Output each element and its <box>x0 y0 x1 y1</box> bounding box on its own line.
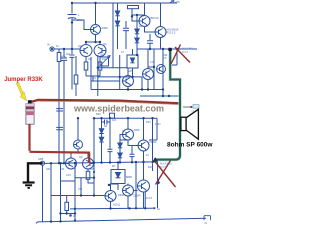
wire node line y49 <box>137 48 197 50</box>
wire black ground <box>28 163 42 181</box>
wire red lower <box>30 124 91 163</box>
wire col x154 <box>148 49 154 90</box>
svg-text:+: + <box>78 14 80 18</box>
wire col x145 <box>144 192 146 208</box>
transistor Q4 driver <box>139 16 150 27</box>
resistor R under Q10 <box>87 169 89 172</box>
svg-text:ZD: ZD <box>112 165 116 168</box>
diode D6 <box>101 134 103 138</box>
wire mirror join <box>86 76 100 81</box>
node teal top <box>168 48 171 51</box>
wire left col x51 <box>50 163 52 221</box>
diode D3 <box>136 15 138 29</box>
svg-text:R 0.5: R 0.5 <box>160 166 167 169</box>
svg-text:BD139: BD139 <box>151 16 159 20</box>
svg-text:R15: R15 <box>146 121 151 124</box>
svg-text:www.spiderbeat.com: www.spiderbeat.com <box>73 103 164 113</box>
speaker SP1 <box>181 109 199 139</box>
svg-text:R 0.5: R 0.5 <box>146 197 153 200</box>
wire Q1 emitter to tail <box>86 35 100 46</box>
wire col x136 <box>135 162 137 208</box>
wire Q1 base <box>72 20 89 30</box>
svg-text:R 0.5: R 0.5 <box>182 51 189 54</box>
wire bottom rail2 y117 <box>94 117 157 119</box>
wire vas vertical <box>90 57 92 90</box>
svg-text:o1: o1 <box>157 208 160 211</box>
svg-text:A968: A968 <box>134 129 140 132</box>
svg-text:8ohm SP 600w: 8ohm SP 600w <box>167 142 213 149</box>
svg-text:D668: D668 <box>118 194 125 197</box>
wire Q10 base <box>92 163 95 165</box>
resistor R small x66 <box>66 196 68 203</box>
wire left col x60 <box>60 163 62 221</box>
bias spreader VR1 <box>127 55 138 68</box>
wire arrow down x2 <box>157 180 160 184</box>
wire col x152.5 low <box>152 163 154 171</box>
teal arrowhead <box>151 157 158 163</box>
wire col x94 <box>93 118 95 163</box>
svg-text:Q9: Q9 <box>79 156 83 159</box>
svg-text:104: 104 <box>112 119 117 122</box>
resistor R5 <box>112 3 114 68</box>
diode D2 <box>115 21 119 26</box>
transistor Q16 <box>105 191 116 202</box>
terminal dot 0v <box>69 214 72 217</box>
component box y113 <box>110 113 115 118</box>
X mark 1 <box>171 45 190 65</box>
diode D8 <box>119 148 121 153</box>
resistor R4 <box>98 62 102 70</box>
svg-text:+65: +65 <box>175 0 180 4</box>
diode D4 <box>136 34 138 38</box>
svg-text:VAS: VAS <box>128 70 133 73</box>
svg-text:C7: C7 <box>121 51 125 54</box>
transistor Q9 diff2 <box>66 158 77 169</box>
wire row y181 <box>61 180 76 182</box>
wire mesh bottom left <box>51 163 105 196</box>
capacitor C8 left col <box>56 109 63 111</box>
wire col x119.7 <box>119 55 121 90</box>
capacitor C4 <box>149 34 151 40</box>
transistor Q13 <box>138 140 149 151</box>
svg-text:100n: 100n <box>155 123 161 126</box>
capacitor C10 <box>125 21 127 28</box>
wire speaker lower stub <box>157 162 159 208</box>
transistor Q1 <box>91 25 101 35</box>
wire col x152.5 <box>152 118 154 162</box>
transistor Q11 tail <box>74 140 83 149</box>
wire red jumper top <box>32 100 182 104</box>
diode D1 <box>117 3 119 11</box>
svg-text:C10: C10 <box>66 174 71 177</box>
wire row y76.9 <box>98 77 142 90</box>
wire Q9 base <box>59 163 66 165</box>
wire Q12 base <box>120 134 123 137</box>
wire col x97.8 <box>97 55 99 96</box>
node resistor top cap <box>28 100 32 104</box>
wire Q4 emitter <box>145 27 156 33</box>
wire row y67.8 <box>98 67 127 69</box>
svg-text:0v: 0v <box>205 222 208 225</box>
ground symbol <box>23 183 35 188</box>
capacitor C6 <box>109 118 111 149</box>
wire row y213.5 <box>61 213 76 215</box>
input terminal 2 <box>40 161 44 165</box>
wire col x163 <box>162 49 164 96</box>
X mark 2 <box>155 161 176 188</box>
transistor Q3 diff <box>94 45 106 57</box>
resistor R3 <box>84 62 88 70</box>
power terminal +V <box>170 1 175 4</box>
wire Q15 base <box>134 190 138 192</box>
diode D7 <box>119 135 121 143</box>
yellow callout arrow <box>16 82 26 101</box>
diode D5 <box>101 118 103 129</box>
svg-text:IN: IN <box>47 43 50 47</box>
svg-text:C2344: C2344 <box>133 195 141 198</box>
capacitor C9 left col <box>56 127 63 129</box>
svg-text:B688: B688 <box>126 176 132 179</box>
svg-text:0.5: 0.5 <box>163 57 167 60</box>
svg-text:D2: D2 <box>104 125 108 128</box>
svg-text:A1011: A1011 <box>113 204 121 207</box>
grey output stub <box>183 106 192 108</box>
wire D-string top <box>132 14 145 16</box>
transistor Q14 out3 <box>138 180 150 192</box>
wire Q5 collector <box>160 3 162 27</box>
capacitor C5 <box>105 120 107 125</box>
capacitor C3 <box>71 49 73 54</box>
svg-text:470: 470 <box>78 188 83 191</box>
transistor Q6 vas <box>123 76 134 87</box>
transistor Q10 diff2 <box>83 158 94 169</box>
input terminal IN <box>50 47 54 51</box>
transistor Q5 output <box>155 27 166 38</box>
wire col x157 stub <box>149 118 157 140</box>
wire left col x75 <box>74 163 76 221</box>
transistor Q8 output2 <box>157 65 166 74</box>
svg-text:0.5: 0.5 <box>150 61 154 64</box>
wire node row2 <box>91 89 163 91</box>
wire input <box>54 48 80 50</box>
tiny labels <box>46 25 161 200</box>
wire Q5 emitter <box>160 38 162 50</box>
terminal icon bottom2 <box>204 216 211 221</box>
wire bottom rail y208.5 <box>70 207 152 210</box>
svg-text:2k2: 2k2 <box>100 54 105 57</box>
wire teal output <box>154 51 180 160</box>
svg-text:10k: 10k <box>88 58 93 61</box>
svg-text:105: 105 <box>90 168 95 171</box>
svg-text:Jumper R33K: Jumper R33K <box>4 76 43 83</box>
capacitor C7 <box>131 145 133 154</box>
svg-text:47p: 47p <box>92 77 97 80</box>
capacitor C2 input <box>63 49 65 57</box>
svg-text:Q3: Q3 <box>103 43 107 46</box>
zener ZD1 box <box>111 170 125 184</box>
terminal arrow bottom1 <box>152 207 156 209</box>
wire Q4 base <box>132 17 139 22</box>
wire node row1 <box>91 80 120 82</box>
resistor R1 input <box>58 49 60 53</box>
trimmer VR2 <box>100 57 109 66</box>
wire bottom rail y218 <box>36 218 206 223</box>
transistor Q7 driver2 <box>143 69 154 80</box>
wire Q13 base <box>128 140 138 146</box>
svg-text:33k: 33k <box>46 168 51 171</box>
wire row y140 <box>120 139 128 141</box>
wire speaker feed <box>180 96 182 118</box>
wire col x177 <box>172 49 177 65</box>
svg-text:R30: R30 <box>96 113 101 116</box>
resistor R2 feedback <box>75 56 77 75</box>
wire top +V rail <box>71 2 177 4</box>
transistor Q2 diff <box>80 45 92 57</box>
wire mid bus y163 <box>45 162 153 164</box>
transistor Q15 <box>123 185 134 196</box>
svg-text:100: 100 <box>60 168 65 171</box>
svg-text:R20: R20 <box>148 166 153 169</box>
svg-text:10: 10 <box>146 154 149 157</box>
wire col x42 drop <box>42 165 44 221</box>
transistor Q12 <box>123 129 134 140</box>
svg-text:1k: 1k <box>56 45 59 48</box>
wire output node <box>140 95 181 97</box>
svg-text:NFB: NFB <box>38 157 43 161</box>
svg-text:A968: A968 <box>102 26 109 30</box>
wire col x170 stub <box>169 49 171 55</box>
resistor R33K photo <box>26 104 34 125</box>
wire diff collectors <box>86 56 100 62</box>
svg-text:R22 0.5: R22 0.5 <box>167 32 176 35</box>
capacitor C1 <box>71 3 73 14</box>
